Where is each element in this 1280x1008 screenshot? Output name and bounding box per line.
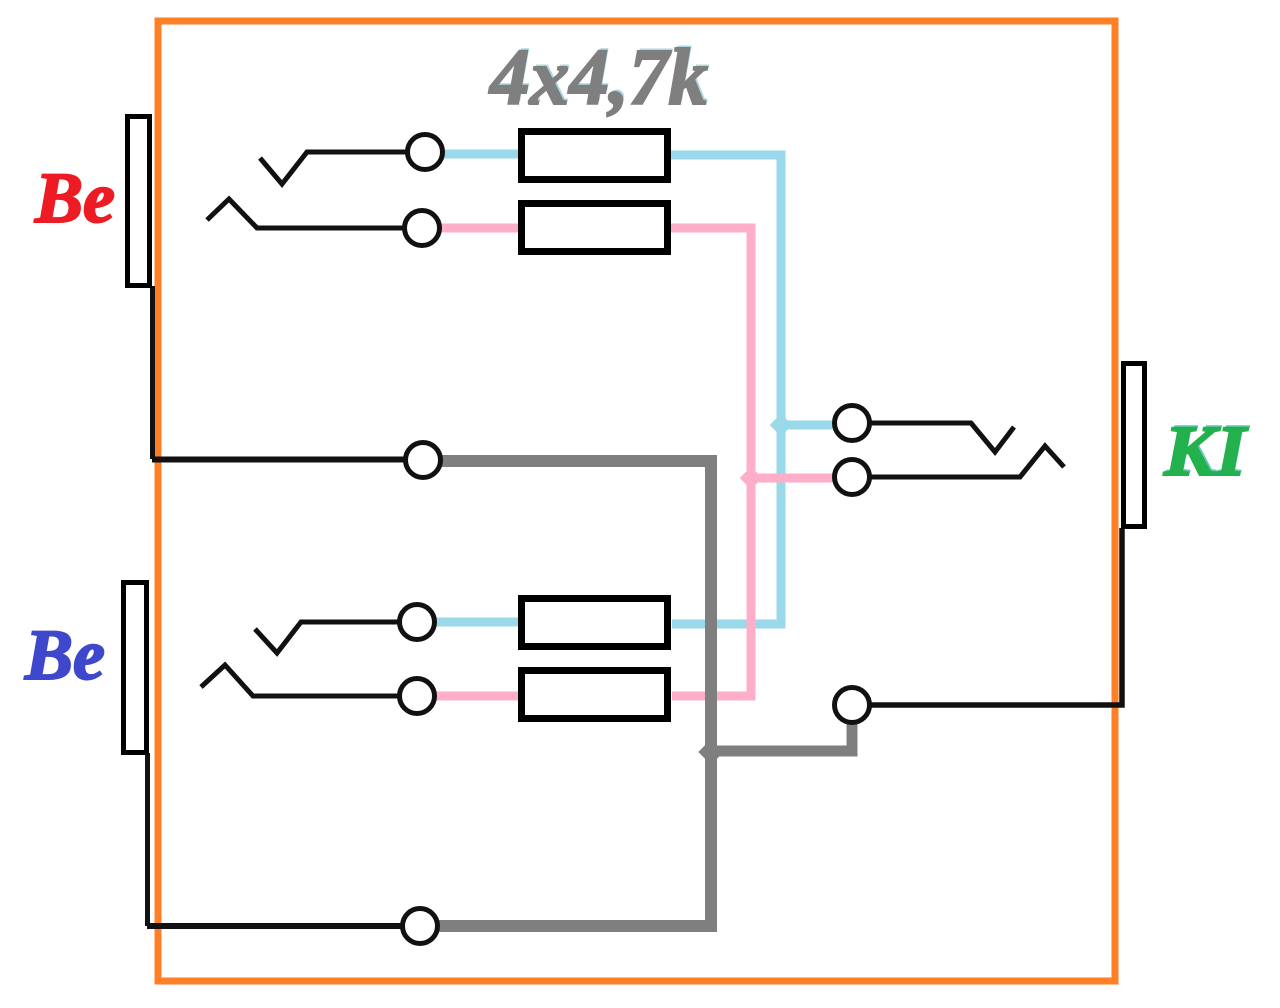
contact circle C [835,688,870,723]
wire black jack1 to line A [150,286,155,459]
connector jack Be top [128,117,150,286]
wire pink R4 left [435,692,522,701]
resistor R1 [522,132,668,180]
node gray junction [698,739,723,764]
switch S3 lever [255,622,398,653]
connector jack Be bottom [124,583,147,753]
frame border [158,21,1115,981]
connector jack KI [1124,364,1145,527]
resistor R3 [522,599,668,647]
switch S2 lever [207,199,403,228]
contact circle S4 [400,679,435,714]
contact circle S5 [835,406,870,441]
svg-text:4x4,7k: 4x4,7k [488,34,708,122]
wire light-blue branch to contact [781,421,836,430]
switch S5 lever [870,423,1014,452]
wire light-blue net (R1 right to R3 right) [671,155,781,624]
wire pink net (R2 right to R4 right) [671,228,751,696]
contact circle S6 [835,460,870,495]
switch S6 lever [870,446,1064,477]
wire thick gray main run [439,461,711,926]
node light-blue junction [770,414,793,437]
wire light-blue R1 left [441,150,522,159]
svg-text:Be: Be [34,158,115,238]
contact circle A [406,443,441,478]
resistor R4 [522,671,668,719]
contact circle S2 [405,211,440,246]
wire gray branch to contact [711,723,852,751]
contact circle S3 [400,605,435,640]
wire black bottom line [147,923,404,929]
switch S4 lever [201,665,398,696]
node pink junction [740,467,763,490]
wire pink R2 left [440,224,522,233]
svg-text:Be: Be [24,615,105,695]
wire black jack2 to bottom line [145,753,150,926]
contact circle B [403,909,438,944]
wire pink branch to contact [751,474,836,483]
switch S1 lever [260,152,406,184]
wire light-blue R3 left [435,618,522,627]
wire black contact C to KI jack [870,528,1122,705]
resistor R2 [522,204,668,252]
contact circle S1 [408,135,443,170]
svg-text:KI: KI [1163,411,1249,491]
wire black line A [152,457,406,463]
